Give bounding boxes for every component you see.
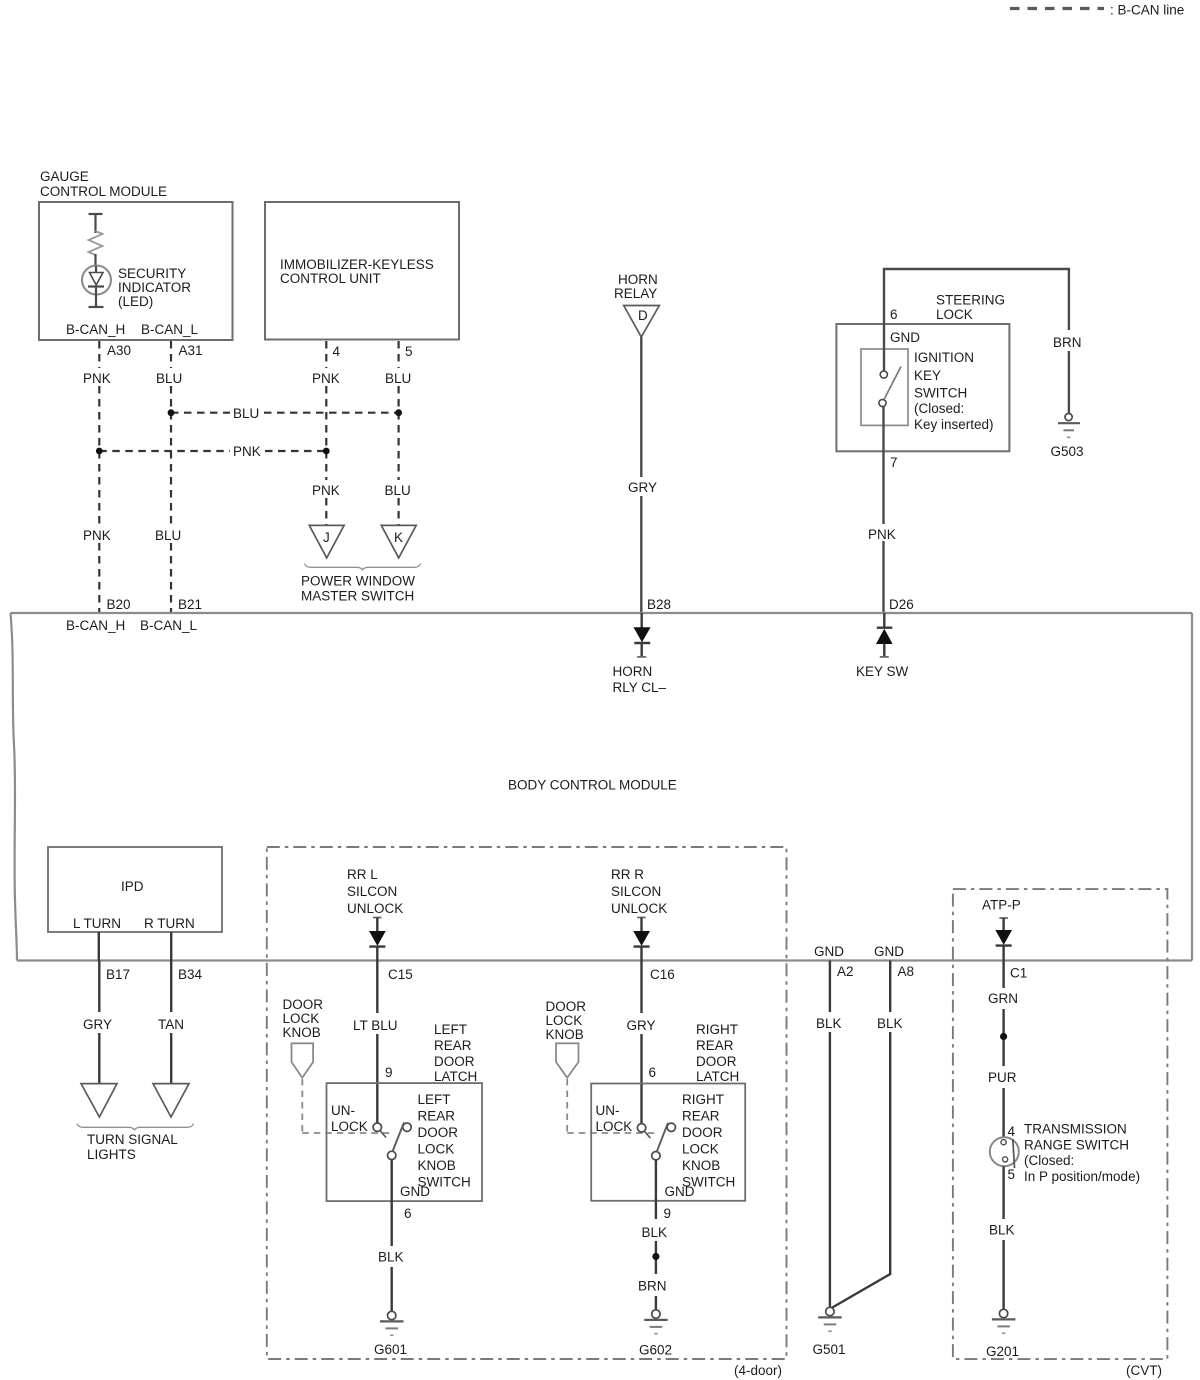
svg-text:A31: A31 [179,343,203,358]
connector J (power window master switch) [309,525,344,558]
svg-text:A30: A30 [107,343,131,358]
svg-text:SILCON: SILCON [347,884,397,899]
svg-text:BLU: BLU [156,371,182,386]
svg-text:4: 4 [333,344,341,359]
svg-text:B20: B20 [107,597,131,612]
right rear door lock knob switch box [591,1084,745,1201]
svg-text:UNLOCK: UNLOCK [611,901,667,916]
svg-text:(Closed:: (Closed: [1024,1153,1074,1168]
svg-text:9: 9 [664,1206,672,1221]
svg-text:LOCK: LOCK [546,1013,583,1028]
brace under turn signals [77,1124,194,1130]
ground G503 [1065,413,1072,420]
svg-text:PNK: PNK [233,444,261,459]
svg-text:GRY: GRY [83,1017,112,1032]
RR L silcon unlock driver symbol [373,917,382,919]
svg-text:4: 4 [1008,1124,1016,1139]
wire into switch [883,324,885,371]
svg-text:D: D [638,308,648,323]
svg-text:LT BLU: LT BLU [353,1018,398,1033]
svg-text:RIGHT: RIGHT [682,1092,724,1107]
svg-text:REAR: REAR [682,1109,720,1124]
svg-text:SECURITY: SECURITY [118,266,186,281]
svg-text:LEFT: LEFT [418,1092,451,1107]
svg-text:DOOR: DOOR [283,997,324,1012]
svg-text:: B-CAN line: : B-CAN line [1110,3,1184,18]
wire LT BLU C15 to left switch [376,961,378,1014]
wire TAN B34 to right turn signal [170,961,172,1013]
ignition key switch inner box [861,349,908,425]
svg-text:BLU: BLU [155,528,181,543]
svg-text:(CVT): (CVT) [1126,1363,1162,1378]
svg-text:PNK: PNK [83,528,111,543]
wire from steering lock pin6 up and over to G503 [884,269,1069,330]
svg-text:LOCK: LOCK [936,307,973,322]
svg-text:PUR: PUR [988,1070,1017,1085]
svg-text:TAN: TAN [158,1017,184,1032]
svg-text:G601: G601 [374,1342,407,1357]
svg-text:HORN: HORN [613,664,653,679]
svg-text:ATP-P: ATP-P [982,898,1021,913]
svg-text:PNK: PNK [868,527,896,542]
svg-text:UN-: UN- [596,1103,620,1118]
svg-text:6: 6 [890,307,898,322]
svg-text:BLK: BLK [642,1225,668,1240]
svg-text:IPD: IPD [121,879,144,894]
svg-text:DOOR: DOOR [418,1125,459,1140]
svg-text:KNOB: KNOB [546,1027,584,1042]
svg-text:BLK: BLK [989,1223,1015,1238]
svg-text:GND: GND [400,1184,430,1199]
wire PNK label [866,524,902,541]
steering lock box [836,324,1009,451]
svg-text:KEY: KEY [914,368,941,383]
svg-text:UN-: UN- [331,1103,355,1118]
dashed mechanical link from knob [301,1079,303,1133]
svg-text:GRY: GRY [627,1018,656,1033]
wire B-CAN_L dashed from gauge A31 to BCM B21 (x=171) [170,341,172,612]
svg-text:RR R: RR R [611,867,644,882]
svg-text:(4-door): (4-door) [734,1363,782,1378]
svg-text:BLK: BLK [378,1250,404,1265]
svg-text:MASTER SWITCH: MASTER SWITCH [301,589,414,604]
svg-text:Key inserted): Key inserted) [914,417,994,432]
gauge control module box [39,202,233,340]
security indicator wire top cap [89,213,103,215]
ground G601 [388,1311,396,1319]
svg-text:LIGHTS: LIGHTS [87,1147,136,1162]
junction at B-CAN_L/A31 [168,409,175,416]
CVT dash-dot box [953,889,1168,1359]
svg-text:C15: C15 [388,967,413,982]
svg-text:K: K [394,530,403,545]
svg-text:HORN: HORN [618,272,658,287]
svg-text:PNK: PNK [83,371,111,386]
right turn signal connector triangle [153,1084,189,1117]
svg-text:LATCH: LATCH [434,1069,477,1084]
horn rly cl- driver symbol (diode down) [641,613,643,629]
svg-text:RR L: RR L [347,867,378,882]
RR R silcon unlock driver symbol [637,917,646,919]
ground G602 [652,1310,660,1318]
wire from lower contact to pin 7 [882,407,884,613]
junction at immobilizer pin5 [395,409,402,416]
svg-text:6: 6 [404,1206,412,1221]
svg-text:TRANSMISSION: TRANSMISSION [1024,1122,1127,1137]
svg-text:TURN SIGNAL: TURN SIGNAL [87,1132,178,1147]
junction at immobilizer pin4 [323,448,330,455]
svg-text:BLK: BLK [877,1016,903,1031]
svg-text:BRN: BRN [1053,335,1082,350]
dashed mechanical link from right knob [566,1079,568,1133]
svg-text:LOCK: LOCK [682,1142,719,1157]
wire GRY horn relay to B28 [640,337,642,477]
key sw driver symbol (diode up) [883,613,885,627]
right switch contacts [637,1124,645,1132]
right door lock knob symbol [556,1043,579,1077]
resistor R (security indicator) [89,231,103,255]
svg-text:DOOR: DOOR [434,1054,475,1069]
svg-text:REAR: REAR [434,1038,472,1053]
wire from right switch bottom contact down [655,1160,657,1219]
svg-text:PNK: PNK [312,483,340,498]
svg-text:GAUGE: GAUGE [40,169,89,184]
svg-text:BLK: BLK [816,1016,842,1031]
svg-text:SWITCH: SWITCH [914,386,967,401]
svg-text:5: 5 [405,344,413,359]
4-door dash-dot box [267,847,787,1359]
wire GRY C16 to right switch [640,961,642,1014]
junction at B-CAN_H/A30 [96,448,103,455]
svg-text:L TURN: L TURN [73,916,121,931]
svg-text:SILCON: SILCON [611,884,661,899]
svg-text:RANGE SWITCH: RANGE SWITCH [1024,1138,1129,1153]
splice junction [1000,1033,1007,1040]
svg-text:C1: C1 [1010,966,1027,981]
svg-text:KNOB: KNOB [283,1025,321,1040]
wire B-CAN_H dashed from gauge A30 to BCM B20 (x=99.3), interrupted by labels [98,341,100,612]
svg-text:B-CAN_L: B-CAN_L [141,322,199,337]
body control module box [11,613,1193,961]
wire immobilizer pin5 dashed (x=398.6) down to K [398,341,400,525]
svg-text:BRN: BRN [638,1279,667,1294]
transmission range switch [990,1137,1019,1166]
horizontal BLU bus dashed y=412.7 [171,412,399,414]
svg-text:DOOR: DOOR [546,999,587,1014]
svg-text:LOCK: LOCK [596,1119,633,1134]
svg-text:RLY CL–: RLY CL– [613,680,667,695]
svg-text:BLU: BLU [233,406,259,421]
svg-text:B21: B21 [178,597,202,612]
wire [94,214,96,233]
svg-text:D26: D26 [889,597,914,612]
svg-text:LEFT: LEFT [434,1022,467,1037]
wire immobilizer pin4 dashed (x=326.3) down to J [325,341,327,525]
svg-text:LOCK: LOCK [418,1142,455,1157]
wavy left edge [11,613,18,961]
svg-text:A8: A8 [898,964,915,979]
brace under J/K [305,564,421,570]
ATP-P driver symbol [999,917,1008,919]
svg-text:CONTROL UNIT: CONTROL UNIT [280,271,381,286]
svg-text:CONTROL MODULE: CONTROL MODULE [40,184,167,199]
svg-text:J: J [323,530,330,545]
svg-text:B34: B34 [178,967,203,982]
svg-text:5: 5 [1008,1167,1016,1182]
svg-text:KNOB: KNOB [418,1158,456,1173]
svg-text:IMMOBILIZER-KEYLESS: IMMOBILIZER-KEYLESS [280,257,434,272]
svg-text:B-CAN_H: B-CAN_H [66,618,125,633]
immobilizer-keyless control unit box [265,202,459,340]
svg-text:C16: C16 [650,967,675,982]
svg-text:B-CAN_H: B-CAN_H [66,322,125,337]
svg-text:INDICATOR: INDICATOR [118,280,191,295]
svg-text:B17: B17 [106,967,130,982]
svg-text:LATCH: LATCH [696,1069,739,1084]
wire IPD R TURN to B34 [170,932,172,961]
wire BLK A2 to G501 [829,961,831,1013]
ground G501 [826,1307,834,1315]
ignition key switch contacts [880,371,887,378]
svg-text:GND: GND [814,944,844,959]
svg-text:REAR: REAR [418,1109,456,1124]
wire GRN C1 down [1002,961,1004,989]
svg-text:GND: GND [890,330,920,345]
svg-text:GRY: GRY [628,480,657,495]
wire BLK A8 to G501 [889,961,891,1013]
svg-text:R TURN: R TURN [144,916,195,931]
svg-text:GND: GND [665,1184,695,1199]
svg-text:DOOR: DOOR [696,1054,737,1069]
svg-text:6: 6 [649,1065,657,1080]
svg-text:G602: G602 [639,1343,672,1358]
LED security indicator [82,266,111,295]
svg-text:(Closed:: (Closed: [914,401,964,416]
svg-text:PNK: PNK [312,371,340,386]
svg-text:A2: A2 [837,964,854,979]
svg-text:BLU: BLU [385,371,411,386]
svg-text:B-CAN_L: B-CAN_L [140,618,198,633]
svg-text:(LED): (LED) [118,294,153,309]
wire IPD L TURN to B17 [98,932,100,961]
svg-text:In P position/mode): In P position/mode) [1024,1169,1140,1184]
svg-text:LOCK: LOCK [331,1119,368,1134]
svg-text:G501: G501 [813,1342,846,1357]
security indicator wire bottom cap [89,306,104,308]
svg-text:GND: GND [874,944,904,959]
svg-text:UNLOCK: UNLOCK [347,901,403,916]
horn relay connector D triangle [624,306,660,338]
ground G201 [999,1309,1007,1317]
connector K (power window master switch) [381,525,416,558]
svg-text:BLU: BLU [385,483,411,498]
wire BLK to G201 [1002,1166,1004,1219]
svg-text:KEY SW: KEY SW [856,664,909,679]
IPD box [48,847,222,932]
wire from left switch bottom contact to G601 [391,1160,393,1246]
left switch contacts [373,1123,381,1131]
horizontal PNK bus dashed y=451 [99,450,326,452]
svg-text:7: 7 [890,455,898,470]
left switch blade [393,1123,405,1152]
left turn signal connector triangle [81,1084,117,1117]
splice junction [652,1253,659,1260]
svg-text:DOOR: DOOR [682,1125,723,1140]
right switch blade [657,1123,668,1152]
svg-text:B28: B28 [647,597,671,612]
svg-text:G503: G503 [1051,444,1084,459]
svg-text:KNOB: KNOB [682,1158,720,1173]
svg-text:9: 9 [385,1065,393,1080]
svg-text:G201: G201 [986,1344,1019,1359]
wire [94,254,96,266]
left door lock knob symbol [292,1043,314,1077]
svg-text:LOCK: LOCK [283,1011,320,1026]
svg-text:POWER WINDOW: POWER WINDOW [301,574,415,589]
wire GRY B17 to left turn signal [98,961,100,1013]
switch blade [884,367,901,400]
svg-text:BODY CONTROL MODULE: BODY CONTROL MODULE [508,778,677,793]
svg-text:IGNITION: IGNITION [914,350,974,365]
svg-text:GRN: GRN [988,991,1018,1006]
svg-text:STEERING: STEERING [936,293,1005,308]
svg-text:RELAY: RELAY [614,286,657,301]
svg-text:REAR: REAR [696,1038,734,1053]
svg-text:RIGHT: RIGHT [696,1022,738,1037]
legend B-CAN line [1010,3,1184,18]
left rear door lock knob switch box [327,1083,483,1201]
